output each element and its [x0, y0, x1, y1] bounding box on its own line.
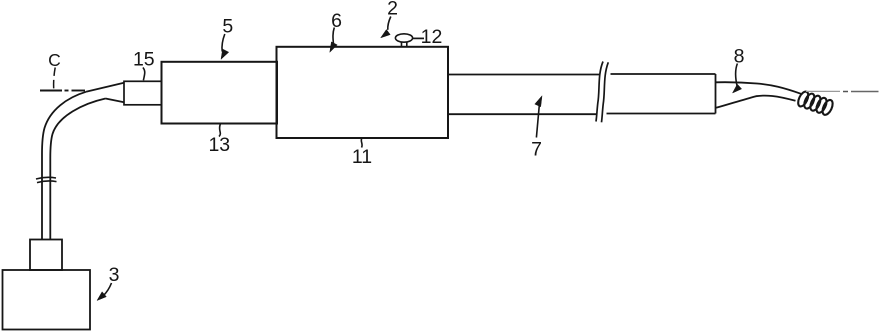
svg-text:13: 13 [208, 134, 230, 156]
svg-text:7: 7 [531, 139, 542, 161]
svg-text:12: 12 [421, 26, 443, 48]
svg-text:C: C [48, 50, 61, 70]
svg-text:3: 3 [109, 264, 120, 286]
svg-text:5: 5 [222, 16, 233, 38]
svg-text:2: 2 [387, 0, 398, 20]
svg-text:11: 11 [352, 146, 372, 168]
svg-text:15: 15 [133, 49, 155, 71]
svg-text:8: 8 [734, 45, 745, 67]
svg-text:6: 6 [331, 10, 342, 32]
